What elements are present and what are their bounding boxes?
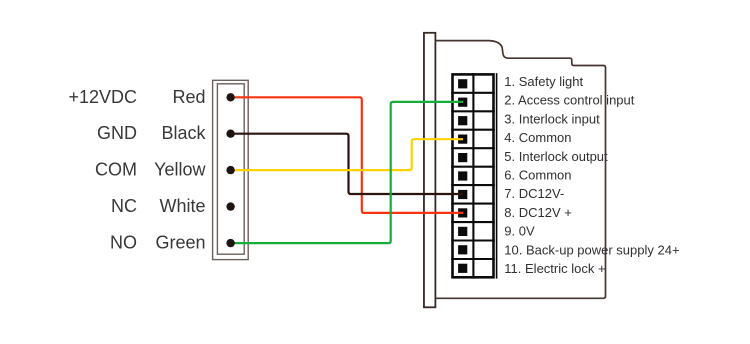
terminal block row dividers bbox=[451, 93, 495, 259]
svg-text:GND: GND bbox=[97, 123, 137, 143]
wire yellow COM to terminal 4 bbox=[231, 139, 463, 170]
pin 3 bbox=[226, 166, 234, 174]
device panel vertical bar bbox=[424, 33, 435, 308]
pin 2 bbox=[226, 130, 234, 138]
svg-text:White: White bbox=[159, 196, 205, 216]
svg-text:4. Common: 4. Common bbox=[504, 130, 571, 145]
svg-text:7. DC12V-: 7. DC12V- bbox=[504, 186, 564, 201]
terminal screws (squares) bbox=[458, 79, 467, 273]
wire red +12VDC to terminal 8 bbox=[231, 97, 463, 213]
wire green NO to terminal 2 bbox=[231, 102, 463, 243]
device outline silhouette bbox=[435, 41, 605, 299]
pin 4 bbox=[226, 202, 234, 210]
svg-text:2. Access control input: 2. Access control input bbox=[504, 93, 634, 108]
svg-text:1. Safety light: 1. Safety light bbox=[504, 74, 583, 89]
svg-text:Red: Red bbox=[172, 87, 205, 107]
svg-text:10. Back-up power supply 24+: 10. Back-up power supply 24+ bbox=[504, 242, 679, 257]
connector J1 outer body bbox=[213, 80, 249, 259]
connector J1 inner body bbox=[217, 84, 244, 254]
svg-text:5. Interlock output: 5. Interlock output bbox=[504, 149, 608, 164]
terminal block column divider bbox=[472, 73, 474, 279]
wire black GND to terminal 7 bbox=[231, 134, 463, 194]
svg-text:6. Common: 6. Common bbox=[504, 168, 571, 183]
svg-text:9. 0V: 9. 0V bbox=[504, 224, 535, 239]
svg-text:Black: Black bbox=[161, 123, 206, 143]
svg-text:COM: COM bbox=[95, 160, 137, 180]
svg-text:Yellow: Yellow bbox=[154, 160, 206, 180]
pin 5 bbox=[226, 239, 234, 247]
svg-text:3. Interlock input: 3. Interlock input bbox=[504, 111, 600, 126]
svg-text:NC: NC bbox=[111, 196, 137, 216]
svg-text:NO: NO bbox=[110, 233, 137, 253]
svg-text:+12VDC: +12VDC bbox=[68, 87, 137, 107]
terminal block TB1 outer frame bbox=[453, 74, 494, 277]
terminal block side plate line bbox=[496, 73, 498, 279]
svg-text:Green: Green bbox=[155, 233, 205, 253]
pin 1 bbox=[226, 93, 234, 101]
svg-text:8. DC12V +: 8. DC12V + bbox=[504, 205, 572, 220]
svg-text:11. Electric lock +: 11. Electric lock + bbox=[504, 261, 605, 276]
